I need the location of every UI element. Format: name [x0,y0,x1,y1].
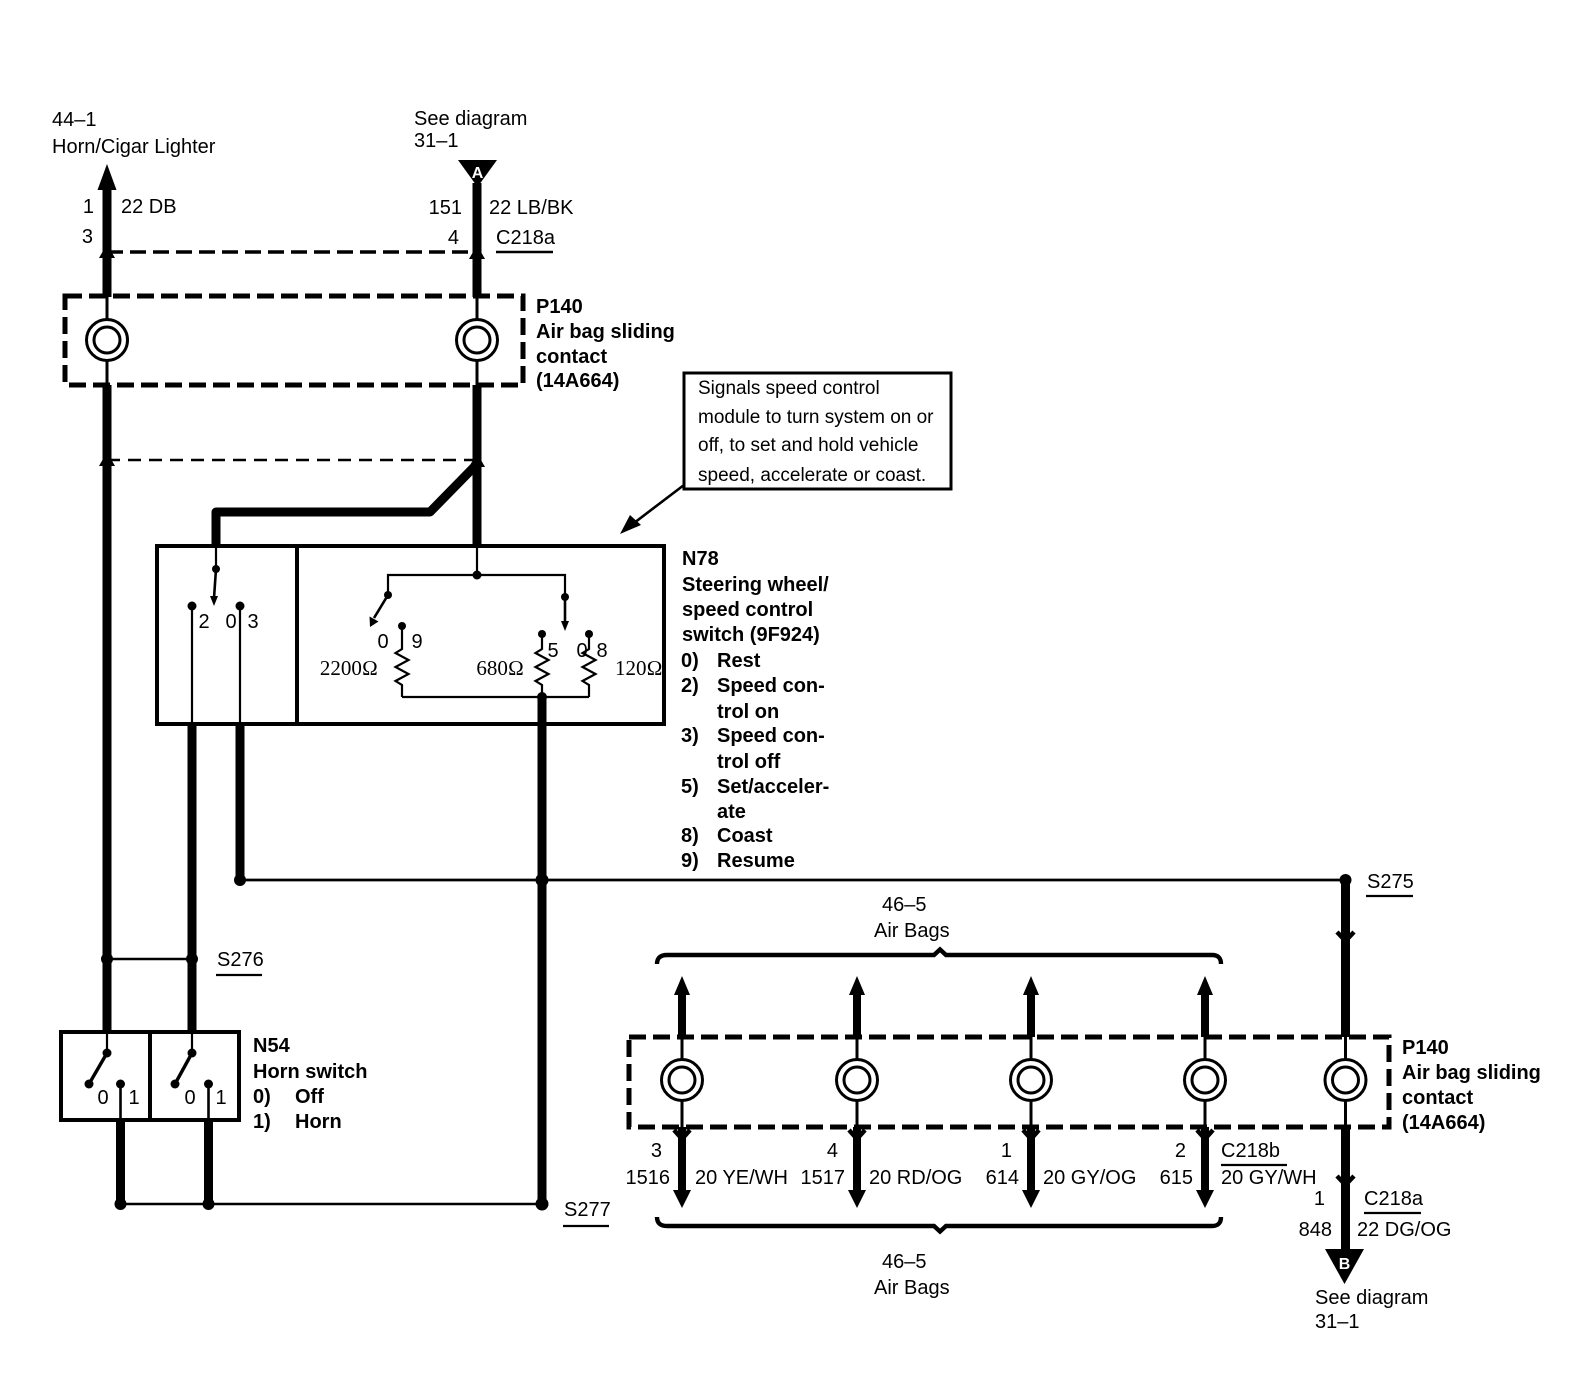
N78 resistor network: entry wire [476,548,478,575]
svg-text:4: 4 [448,227,459,249]
svg-text:Set/acceler-: Set/acceler- [717,776,829,798]
resistor 680 ohm [536,630,549,697]
label circuit 151 / 22 LB/BK pins [429,197,575,249]
N78 contact 3 (speed control off) [236,602,245,611]
wire from contact 3 to box bottom [239,606,241,724]
wire N54 left output down to S277 [116,1120,125,1204]
svg-text:0: 0 [97,1087,108,1109]
air bag wire 3 up arrow [1023,976,1039,995]
bracket air bags (top) [657,950,1221,965]
wire from contact 2 to box bottom [191,606,193,724]
svg-text:contact: contact [1402,1087,1473,1109]
svg-text:trol off: trol off [717,751,781,773]
svg-text:S275: S275 [1367,871,1414,893]
svg-text:3: 3 [651,1140,662,1162]
svg-text:20 YE/WH: 20 YE/WH [695,1167,788,1189]
svg-text:9): 9) [681,850,699,872]
svg-text:switch (9F924): switch (9F924) [682,624,820,646]
wire 22 DB vertical (circuit 1) [103,186,112,297]
N54 left labels 0 1 [97,1087,139,1109]
svg-text:1: 1 [83,196,94,218]
wire resistor bottom rail [402,696,589,698]
svg-text:Horn/Cigar Lighter: Horn/Cigar Lighter [52,136,216,158]
svg-text:(14A664): (14A664) [1402,1112,1485,1134]
node 44-1 Horn/Cigar Lighter label [52,109,216,158]
svg-text:31–1: 31–1 [414,130,459,152]
svg-text:3): 3) [681,725,699,747]
svg-text:22 DG/OG: 22 DG/OG [1357,1219,1451,1241]
wire dashed connector row C218a (pins 3/4) [107,250,477,253]
labels 2 0 3 [198,611,258,633]
svg-text:0): 0) [253,1086,271,1108]
horn switch N54 box [61,1032,239,1120]
label P140 (top) [536,296,675,392]
wire dogleg branch into N78 pole (thick) [216,463,478,547]
svg-text:0): 0) [681,650,699,672]
splice S277 horizontal wire [121,1203,543,1206]
connector C218a underline (bottom) [1364,1212,1421,1214]
label N54 block [253,1035,367,1133]
svg-text:P140: P140 [536,296,583,318]
node B: see diagram 31-1 label [1315,1287,1428,1333]
svg-text:2200Ω: 2200Ω [320,656,378,680]
wire 1516 down arrow [673,1127,691,1208]
svg-text:contact: contact [536,346,607,368]
label P140 (bottom) [1402,1037,1541,1134]
node A: see diagram 31-1 label [414,108,527,152]
svg-text:1: 1 [1314,1188,1325,1210]
coil contact (bottom, 1) [662,1037,703,1127]
resistor 120 ohm [583,630,596,697]
connector C218a underline (top) [496,251,553,253]
svg-text:Signals speed control: Signals speed control [698,378,880,399]
svg-text:Resume: Resume [717,850,795,872]
svg-text:0: 0 [225,611,236,633]
wire 615 down arrow [1196,1127,1214,1208]
svg-text:8): 8) [681,825,699,847]
svg-text:3: 3 [247,611,258,633]
svg-text:0: 0 [184,1087,195,1109]
svg-text:2: 2 [198,611,209,633]
svg-text:44–1: 44–1 [52,109,97,131]
svg-text:Horn switch: Horn switch [253,1061,367,1083]
resistor 2200 ohm [396,622,409,697]
svg-text:31–1: 31–1 [1315,1311,1360,1333]
label N78 block [681,548,829,872]
wire resistor common drop through N78 bottom [538,697,547,724]
svg-text:Speed con-: Speed con- [717,725,825,747]
connector P140 air bag sliding contact (bottom) dashed box [629,1037,1389,1127]
label 46-5 Air Bags (top) [874,894,950,942]
air bag wire 1 up arrow [674,976,690,995]
labels 0 9 (resume contacts) [377,631,607,662]
svg-text:22 LB/BK: 22 LB/BK [489,197,574,219]
svg-text:speed, accelerate or coast.: speed, accelerate or coast. [698,465,926,486]
connector P140 air bag sliding contact (top) dashed box [65,296,523,385]
svg-text:Air Bags: Air Bags [874,1277,950,1299]
wire left below P140 [103,385,112,1033]
coil contact (bottom, 4) [1185,1037,1226,1127]
callout box: signals speed control note [684,373,951,489]
coil contact (bottom, 5 - S275 feed) [1325,1037,1366,1127]
svg-text:See diagram: See diagram [414,108,527,130]
bracket air bags (bottom) [657,1217,1221,1232]
svg-text:C218b: C218b [1221,1140,1280,1162]
svg-text:20 RD/OG: 20 RD/OG [869,1167,962,1189]
svg-text:46–5: 46–5 [882,1251,927,1273]
off-page connector triangle B [1325,1249,1364,1284]
svg-text:N54: N54 [253,1035,291,1057]
switch module N78 outer box [157,546,664,724]
svg-text:20 GY/WH: 20 GY/WH [1221,1167,1317,1189]
svg-text:S277: S277 [564,1199,611,1221]
junction arrow right at row 2 [469,453,485,467]
N54 left pole and blade [85,1034,112,1089]
label circuit 1 / 22 DB [82,196,177,248]
svg-text:1): 1) [253,1111,271,1133]
svg-text:module to turn system on or: module to turn system on or [698,407,934,428]
wire horn feed arrow (to 44-1) [98,164,117,190]
svg-text:1: 1 [215,1087,226,1109]
svg-text:C218a: C218a [496,227,556,249]
pin labels bottom connector [651,1140,1280,1162]
N54 right contact 1 [204,1080,213,1089]
junction arrow left at row 2 [99,452,115,466]
N78 set/coast pole pivot and blade [561,593,569,601]
svg-text:8: 8 [596,640,607,662]
N78 contact 2 (speed control on) [188,602,197,611]
label 46-5 Air Bags (bottom) [874,1251,950,1299]
svg-text:614: 614 [986,1167,1019,1189]
wire from N78 pin 2 down to N54 [188,724,197,1033]
off-page connector triangle A [458,160,497,187]
svg-text:Speed con-: Speed con- [717,675,825,697]
N54 divider [148,1032,152,1120]
connector C218b underline [1221,1164,1287,1166]
svg-text:1: 1 [128,1087,139,1109]
svg-text:(14A664): (14A664) [536,370,619,392]
svg-text:off, to set and hold vehicle: off, to set and hold vehicle [698,435,918,456]
svg-text:See diagram: See diagram [1315,1287,1428,1309]
N54 right labels 0 1 [184,1087,226,1109]
coil contact (bottom, 2) [837,1037,878,1127]
junction dot S275 right end [1340,874,1352,886]
N54 left contact 1 [116,1080,125,1089]
svg-text:Air bag sliding: Air bag sliding [1402,1062,1541,1084]
splice S275 horizontal wire [240,879,1346,882]
wire 1517 down arrow [848,1127,866,1208]
svg-text:680Ω: 680Ω [476,656,524,680]
svg-text:1517: 1517 [801,1167,846,1189]
wire from N78 pin 3 down to S275 [236,724,245,880]
air bag wire 4 up arrow [1197,976,1213,995]
splice S276 connector wire [107,958,192,961]
svg-text:0: 0 [377,631,388,653]
svg-text:Air Bags: Air Bags [874,920,950,942]
svg-text:5: 5 [547,640,558,662]
wire dashed row 2 (sliding contact travel) [107,459,477,461]
svg-text:5): 5) [681,776,699,798]
wire horizontal bus inside N78 [388,575,565,597]
svg-text:Air bag sliding: Air bag sliding [536,321,675,343]
wire right below P140 [473,385,482,548]
svg-text:trol on: trol on [717,701,779,723]
svg-text:Coast: Coast [717,825,773,847]
coil contact (P140 top, left) [87,297,128,385]
svg-text:9: 9 [411,631,422,653]
junction node on bus [473,571,482,580]
svg-text:2: 2 [1175,1140,1186,1162]
wire 848 22 DG/OG below P140 with chevron [1341,1127,1350,1252]
svg-text:2): 2) [681,675,699,697]
svg-text:Steering wheel/: Steering wheel/ [682,574,829,596]
N78 on/off pole: entry, pivot dot and blade [210,548,220,606]
svg-text:ate: ate [717,801,746,823]
junction dot at pin3 wire end [234,874,246,886]
svg-text:120Ω: 120Ω [615,656,663,680]
wire labels bottom connector [626,1167,1317,1189]
svg-text:B: B [1339,1256,1351,1273]
svg-text:A: A [472,165,484,182]
N78 internal divider [295,546,299,724]
svg-text:848: 848 [1299,1219,1332,1241]
wire 614 down arrow [1022,1127,1040,1208]
junction arrow at pin 3 crossing [99,244,115,258]
labels pin 1 / C218a (bottom) [1299,1188,1452,1241]
svg-text:22 DB: 22 DB [121,196,177,218]
junction node resistor rail [537,692,547,702]
svg-text:46–5: 46–5 [882,894,927,916]
air bag wire 2 up arrow [849,976,865,995]
callout leader arrow to N78 [630,485,684,526]
svg-text:Rest: Rest [717,650,761,672]
coil contact (bottom, 3) [1011,1037,1052,1127]
svg-text:speed control: speed control [682,599,813,621]
svg-text:151: 151 [429,197,462,219]
svg-text:1: 1 [1001,1140,1012,1162]
junction dot S275 x resistor wire [536,874,549,887]
svg-text:20 GY/OG: 20 GY/OG [1043,1167,1136,1189]
coil contact (P140 top, right) [457,297,498,385]
wire N54 right output down to S277 [204,1120,213,1204]
svg-text:N78: N78 [682,548,719,570]
wire resistor common down to S277 [538,724,547,1204]
svg-text:S276: S276 [217,949,264,971]
N78 resume pole pivot and blade [384,591,392,599]
N54 right pole and blade [171,1034,197,1089]
svg-text:Off: Off [295,1086,324,1108]
svg-text:P140: P140 [1402,1037,1449,1059]
wire S275 down to P140 (bottom) with direction chevron [1341,880,1350,1037]
svg-text:4: 4 [827,1140,838,1162]
svg-text:C218a: C218a [1364,1188,1424,1210]
wire 22 LB/BK vertical from triangle A [473,183,482,297]
junction arrow at pin 4 crossing [469,245,485,259]
svg-text:615: 615 [1160,1167,1193,1189]
svg-text:1516: 1516 [626,1167,671,1189]
svg-text:3: 3 [82,226,93,248]
svg-text:Horn: Horn [295,1111,342,1133]
